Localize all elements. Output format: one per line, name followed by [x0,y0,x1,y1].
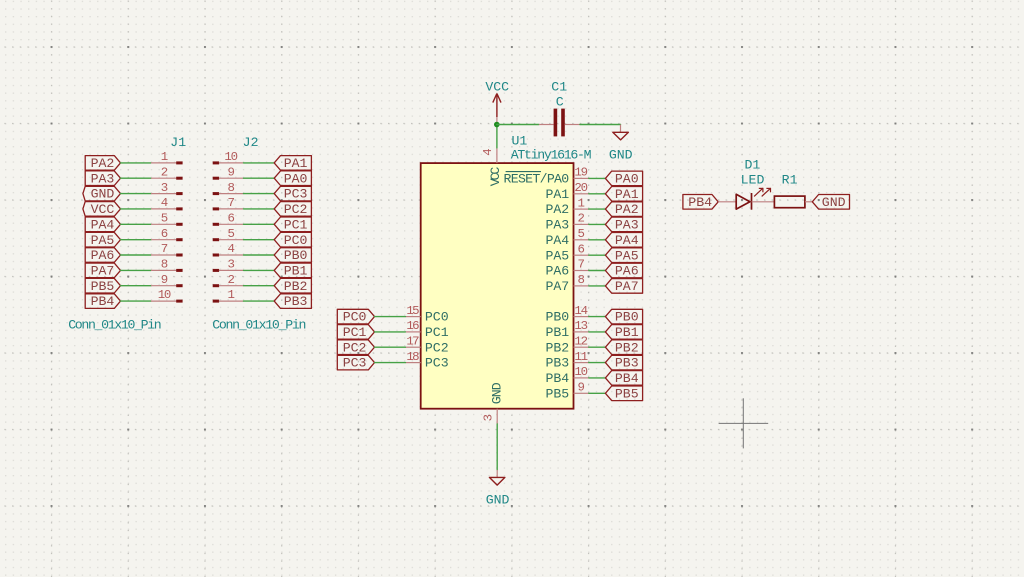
connector J1 pin 10 [151,300,183,303]
global label PB4 (U1 right) [605,371,642,386]
svg-text:10: 10 [574,365,588,379]
wire U1 PB0 to label [589,316,606,318]
svg-text:PB4: PB4 [545,371,569,386]
U1 pin 11 (PB3) [574,362,589,364]
svg-text:2: 2 [227,273,234,287]
wire J2 pin 9 [244,177,275,179]
wire VCC junction to C1 [497,124,539,126]
wire U1 PA5 to label [589,254,606,256]
global label PB1 (J2 pin 3) [274,263,311,278]
svg-text:PA3: PA3 [545,218,569,233]
wire J1 pin 7 [121,254,152,256]
wire U1 PA2 to label [589,208,606,210]
wire U1 PB5 to label [589,392,606,394]
ground symbol (top right of C1) [613,125,629,140]
svg-text:3: 3 [161,181,168,195]
U1 pin 5 (PA4) [574,239,589,241]
U1 pin 4 VCC (top) [496,148,498,163]
global label PA4 (J1 pin 5) [85,217,120,232]
wire VCC junction to U1 pin 4 [496,125,498,148]
wire PC2 label to U1 [375,346,406,348]
wire U1 pin 3 to GND symbol [496,424,498,470]
svg-text:PA5: PA5 [91,233,115,248]
svg-text:16: 16 [406,319,419,333]
svg-text:19: 19 [574,166,588,180]
global label PB5 (U1 right) [605,386,642,401]
LED D1 [718,188,774,210]
svg-text:PC3: PC3 [343,356,367,371]
wire U1 RESET/PA0 to label [589,177,606,179]
wire J2 pin 8 [244,193,275,195]
U1 pin 12 (PB2) [574,346,589,348]
svg-text:PB1: PB1 [284,264,308,279]
svg-text:PC0: PC0 [284,233,308,248]
svg-text:9: 9 [577,381,584,395]
power symbol VCC [493,94,501,125]
svg-text:7: 7 [227,196,234,210]
svg-text:8: 8 [577,273,584,287]
svg-text:9: 9 [227,165,234,179]
global label PB0 (J2 pin 4) [274,248,311,263]
svg-text:3: 3 [481,414,495,421]
wire U1 PA1 to label [589,193,606,195]
U1 pin 15 (PC0) [405,316,420,318]
svg-text:7: 7 [161,242,168,256]
global label PB2 (J2 pin 2) [274,278,311,293]
global label PA7 (U1 right) [605,279,642,294]
connector J1 pin 2 [151,177,183,180]
wire J1 pin 1 [121,162,152,164]
svg-text:PB0: PB0 [284,248,308,263]
svg-text:PB3: PB3 [545,356,569,371]
svg-text:10: 10 [224,150,238,164]
svg-text:PB2: PB2 [545,340,569,355]
svg-text:GND: GND [486,493,510,508]
wire J2 pin 1 [244,300,275,302]
junction VCC node [494,122,500,128]
wire J2 pin 5 [244,239,275,241]
svg-text:PA3: PA3 [615,218,639,233]
svg-text:PA4: PA4 [545,233,569,248]
global label PA3 (U1 right) [605,217,642,232]
svg-text:5: 5 [227,227,234,241]
svg-text:8: 8 [161,258,168,272]
svg-text:2: 2 [161,165,168,179]
U1 pin 13 (PB1) [574,331,589,333]
svg-text:PC0: PC0 [343,310,367,325]
svg-text:17: 17 [406,334,419,348]
svg-text:PA2: PA2 [615,202,639,217]
connector J1 pin 7 [151,254,183,257]
svg-text:PA1: PA1 [284,156,308,171]
svg-text:PA4: PA4 [615,233,639,248]
global label PA6 (U1 right) [605,263,642,278]
resistor R1 [774,196,812,208]
wire U1 PB1 to label [589,331,606,333]
svg-text:6: 6 [227,212,234,226]
wire J1 pin 10 [121,300,152,302]
connector J2 pin 3 [213,269,244,272]
svg-text:U1: U1 [512,134,528,149]
svg-text:C: C [556,95,564,110]
global label PC0 (J2 pin 5) [274,232,311,247]
svg-text:2: 2 [577,212,584,226]
svg-text:PA6: PA6 [545,264,569,279]
global label PA0 (U1 right) [605,171,642,186]
U1 pin 1 (PA2) [574,208,589,210]
RESET overline [506,171,541,173]
svg-text:8: 8 [227,181,234,195]
U1 pin 10 (PB4) [574,377,589,379]
svg-text:7: 7 [577,258,584,272]
op-amp U1 body: microcontroller ATtiny1616-M rectangle [421,163,574,409]
svg-text:PB3: PB3 [615,356,639,371]
svg-text:GND: GND [490,382,505,404]
global label PC1 (U1 left) [337,325,374,340]
svg-text:1: 1 [161,150,168,164]
svg-text:5: 5 [161,212,168,226]
svg-text:PB0: PB0 [545,310,569,325]
svg-text:PA0: PA0 [615,172,639,187]
wire PC0 label to U1 [375,316,406,318]
wire J2 pin 10 [244,162,275,164]
wire U1 PA6 to label [589,270,606,272]
svg-text:Conn_01x10_Pin: Conn_01x10_Pin [68,317,162,332]
connector J2 pin 9 [213,177,244,180]
svg-text:PB5: PB5 [615,386,639,401]
svg-text:20: 20 [574,181,588,195]
svg-text:PA5: PA5 [545,248,569,263]
wire PC1 label to U1 [375,331,406,333]
wire J2 pin 7 [244,208,275,210]
global label PA0 (J2 pin 9) [274,171,311,186]
wire J1 pin 8 [121,269,152,271]
connector J1 pin 9 [151,284,183,287]
svg-text:PB5: PB5 [91,279,115,294]
connector J2 pin 10 [213,161,244,164]
global label PB0 (U1 right) [605,309,642,324]
global label PC0 (U1 left) [337,309,374,324]
wire J1 pin 3 [121,193,152,195]
svg-text:4: 4 [481,148,495,155]
svg-text:PA4: PA4 [91,217,115,232]
svg-text:J2: J2 [243,135,259,150]
wire J2 pin 4 [244,254,275,256]
global label PB1 (U1 right) [605,325,642,340]
svg-text:PC1: PC1 [284,217,308,232]
svg-text:18: 18 [406,350,419,364]
svg-text:Conn_01x10_Pin: Conn_01x10_Pin [212,317,306,332]
svg-text:15: 15 [406,304,419,318]
svg-text:PA0: PA0 [284,171,308,186]
svg-text:12: 12 [574,334,588,348]
svg-text:ATtiny1616-M: ATtiny1616-M [511,148,592,163]
connector J1 pin 3 [151,192,183,195]
U1 pin 8 (PA7) [574,285,589,287]
global label PB5 (J1 pin 9) [85,278,120,293]
ground symbol (below U1) [489,470,505,485]
svg-text:C1: C1 [551,80,567,95]
global label PA5 (J1 pin 6) [85,232,120,247]
svg-text:GND: GND [609,148,633,163]
svg-text:R1: R1 [782,173,798,188]
connector J2 pin 1 [213,300,244,303]
global label PA4 (U1 right) [605,233,642,248]
wire J1 pin 9 [121,285,152,287]
svg-text:D1: D1 [744,157,760,172]
svg-text:4: 4 [227,242,234,256]
wire U1 PB3 to label [589,362,606,364]
svg-text:PC2: PC2 [425,340,449,355]
wire J1 pin 6 [121,239,152,241]
svg-text:PB4: PB4 [688,195,712,210]
svg-text:5: 5 [577,227,584,241]
svg-text:6: 6 [577,242,584,256]
global label PC1 (J2 pin 6) [274,217,311,232]
connector J1 pin 5 [151,223,183,226]
svg-text:J1: J1 [170,135,186,150]
svg-text:PA3: PA3 [91,171,115,186]
global label PA1 (U1 right) [605,187,642,202]
U1 pin 2 (PA3) [574,223,589,225]
global label PB2 (U1 right) [605,340,642,355]
global label PA2 (U1 right) [605,202,642,217]
wire PC3 label to U1 [375,362,406,364]
svg-text:PB4: PB4 [91,294,115,309]
U1 pin 18 (PC3) [405,362,420,364]
connector J2 pin 5 [213,238,244,241]
svg-text:PC2: PC2 [284,202,308,217]
svg-text:13: 13 [574,319,588,333]
svg-text:14: 14 [574,304,588,318]
wire J2 pin 3 [244,269,275,271]
global label PB4 (LED branch) [683,195,718,210]
wire J1 pin 5 [121,223,152,225]
svg-text:PA6: PA6 [615,264,639,279]
svg-text:PA2: PA2 [545,202,569,217]
svg-text:10: 10 [158,288,172,302]
svg-text:RESET/PA0: RESET/PA0 [504,172,570,187]
svg-text:GND: GND [91,187,115,202]
global label GND (J1 pin 3) [83,186,121,201]
svg-text:PB2: PB2 [615,340,639,355]
U1 pin 9 (PB5) [574,392,589,394]
wire J2 pin 6 [244,223,275,225]
wire U1 PA4 to label [589,239,606,241]
svg-text:VCC: VCC [488,167,503,187]
wire C1 to GND symbol [580,124,621,126]
U1 pin 3 GND (bottom) [496,409,498,424]
global label PA6 (J1 pin 7) [85,248,120,263]
global label PB3 (U1 right) [605,355,642,370]
svg-text:LED: LED [741,173,765,188]
connector J1 pin 1 [151,161,183,164]
global label VCC (J1 pin 4) [83,202,121,217]
svg-text:VCC: VCC [485,80,509,95]
global label PC3 (J2 pin 8) [274,186,311,201]
global label PA2 (J1 pin 1) [85,156,120,171]
svg-text:PC1: PC1 [425,325,449,340]
svg-text:PA7: PA7 [91,264,115,279]
connector J2 pin 8 [213,192,244,195]
global label PA1 (J2 pin 10) [274,156,311,171]
connector J1 pin 6 [151,238,183,241]
connector J2 pin 6 [213,223,244,226]
global label GND (after R1) [812,195,849,210]
global label PA3 (J1 pin 2) [85,171,120,186]
global label PA5 (U1 right) [605,248,642,263]
connector J1 pin 4 [151,207,183,210]
svg-text:PA7: PA7 [545,279,569,294]
wire J1 pin 4 [121,208,152,210]
svg-text:PC1: PC1 [343,325,367,340]
svg-text:PC3: PC3 [284,187,308,202]
svg-text:PB5: PB5 [545,386,569,401]
svg-text:VCC: VCC [91,202,115,217]
svg-text:PA1: PA1 [545,187,569,202]
svg-text:11: 11 [574,350,588,364]
svg-text:PA1: PA1 [615,187,639,202]
global label PC2 (U1 left) [337,340,374,355]
U1 pin 17 (PC2) [405,346,420,348]
connector J2 pin 2 [213,284,244,287]
U1 pin 14 (PB0) [574,316,589,318]
connector J2 pin 4 [213,254,244,257]
svg-text:1: 1 [227,288,234,302]
U1 pin 19 (RESET/PA0) [574,177,589,179]
wire J2 pin 2 [244,285,275,287]
svg-text:PB0: PB0 [615,310,639,325]
wire U1 PA3 to label [589,223,606,225]
wire U1 PB2 to label [589,346,606,348]
svg-text:1: 1 [577,196,584,210]
U1 pin 7 (PA6) [574,270,589,272]
capacitor C1 [539,109,580,137]
global label PA7 (J1 pin 8) [85,263,120,278]
svg-text:PA7: PA7 [615,279,639,294]
svg-text:6: 6 [161,227,168,241]
U1 pin 16 (PC1) [405,331,420,333]
global label PC2 (J2 pin 7) [274,202,311,217]
wire J1 pin 2 [121,177,152,179]
crosshair marker [719,398,769,448]
svg-text:PA6: PA6 [91,248,115,263]
wire U1 PB4 to label [589,377,606,379]
wire U1 PA7 to label [589,285,606,287]
svg-text:3: 3 [227,258,234,272]
svg-text:PB2: PB2 [284,279,308,294]
svg-text:PB4: PB4 [615,371,639,386]
U1 pin 6 (PA5) [574,254,589,256]
U1 pin 20 (PA1) [574,193,589,195]
svg-text:4: 4 [161,196,168,210]
svg-text:PB3: PB3 [284,294,308,309]
svg-text:PA2: PA2 [91,156,115,171]
svg-text:GND: GND [822,195,846,210]
global label PB4 (J1 pin 10) [85,294,120,309]
global label PB3 (J2 pin 1) [274,294,311,309]
svg-text:PC3: PC3 [425,356,449,371]
connector J1 pin 8 [151,269,183,272]
global label PC3 (U1 left) [337,355,374,370]
svg-text:9: 9 [161,273,168,287]
svg-text:PB1: PB1 [615,325,639,340]
svg-text:PC0: PC0 [425,310,449,325]
svg-text:PC2: PC2 [343,340,367,355]
svg-text:PA5: PA5 [615,248,639,263]
svg-text:PB1: PB1 [545,325,569,340]
connector J2 pin 7 [213,207,244,210]
